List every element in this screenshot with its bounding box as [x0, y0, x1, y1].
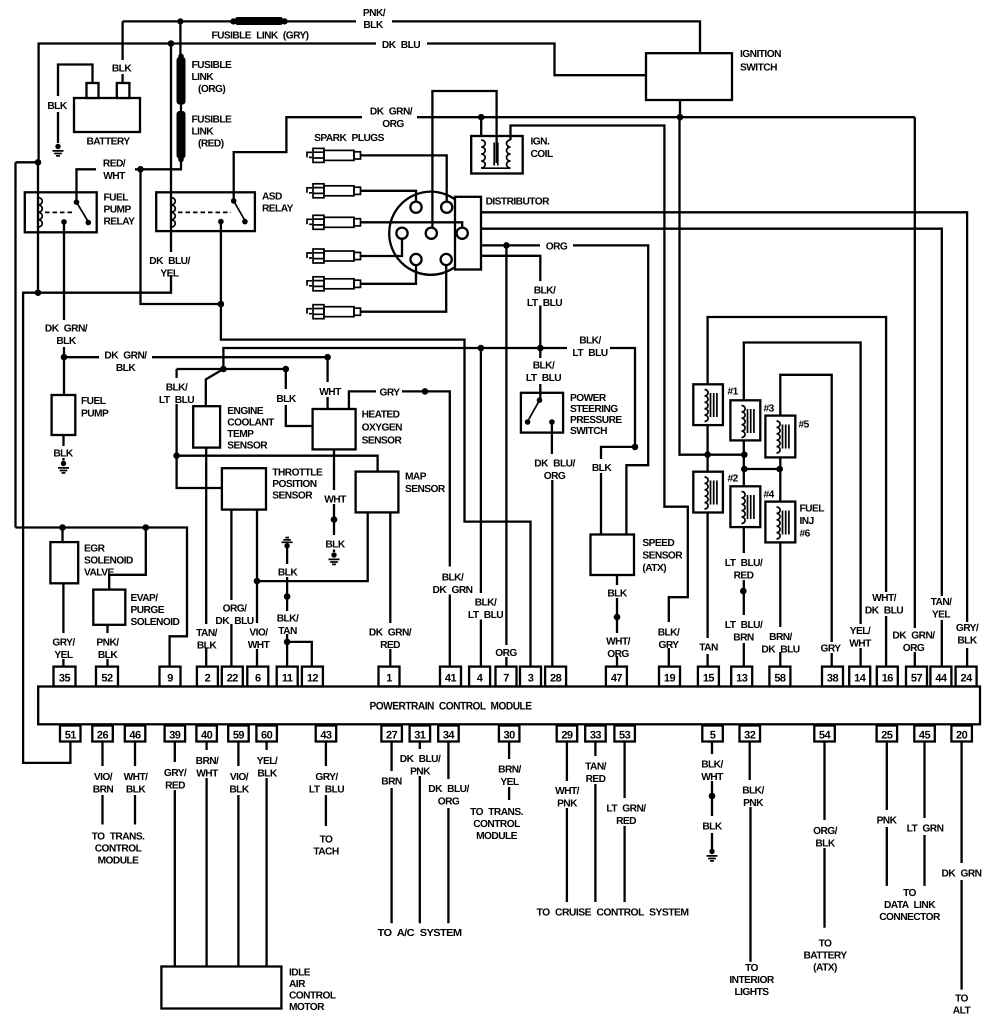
wire: plug 4 to distributor — [361, 239, 403, 256]
svg-text:#4: #4 — [764, 490, 775, 501]
svg-text:ORG: ORG — [544, 471, 566, 482]
wire GRY/RED: pin 39 to idle air control motor — [174, 742, 176, 967]
wire ORG/BLK: pin 54 to battery (ATX) — [823, 742, 825, 928]
svg-text:BLK: BLK — [325, 540, 345, 551]
powertrain control module box — [38, 687, 980, 725]
fuel pump relay box — [25, 192, 97, 232]
svg-text:TO: TO — [320, 835, 333, 846]
wire PNK/BLK: EVAP to pin 52 — [106, 625, 108, 667]
spark plug 4 — [307, 249, 361, 263]
node: splice on GRY wire — [422, 388, 429, 395]
svg-text:DK BLU/: DK BLU/ — [149, 256, 190, 267]
svg-text:VIO/: VIO/ — [230, 772, 249, 783]
pin 25 — [877, 726, 898, 742]
svg-text:BLK/: BLK/ — [534, 286, 556, 297]
ignition coil right winding — [507, 140, 511, 168]
pin 15 — [698, 667, 719, 687]
svg-text:SENSOR: SENSOR — [227, 441, 268, 452]
pin 45 — [914, 726, 935, 742]
node: ignition switch output junction — [677, 114, 684, 121]
wire: sensor ground lateral — [177, 368, 288, 370]
svg-text:DATA LINK: DATA LINK — [884, 900, 936, 911]
ground: pin 5 — [707, 849, 718, 861]
wire DK GRN/RED: MAP signal to pin 1 — [389, 512, 391, 666]
wire: top battery feed to fusible link (GRY) — [123, 20, 234, 22]
svg-text:GRY: GRY — [379, 388, 400, 399]
svg-text:SENSOR: SENSOR — [272, 491, 313, 502]
svg-text:WHT/: WHT/ — [124, 772, 149, 783]
wire: coil tower to distributor center — [432, 91, 496, 228]
wire: injector column A (Nos.1-2) riser and drop to pin 15 — [708, 317, 887, 667]
svg-text:FUSIBLE LINK (GRY): FUSIBLE LINK (GRY) — [212, 31, 309, 42]
PS switch contacts — [525, 397, 555, 424]
wire: distributor sync signal to PCM pin 44 — [481, 229, 942, 667]
wire: plug 6 to distributor — [361, 265, 447, 312]
svg-text:RELAY: RELAY — [262, 204, 294, 215]
pin 2 — [197, 667, 218, 687]
svg-text:WHT: WHT — [849, 639, 872, 650]
svg-text:CONNECTOR: CONNECTOR — [879, 912, 941, 923]
pin 5 — [702, 726, 723, 742]
svg-text:BLK/: BLK/ — [533, 361, 555, 372]
svg-text:#6: #6 — [800, 529, 811, 540]
svg-text:51: 51 — [65, 730, 77, 742]
svg-text:PNK/: PNK/ — [363, 8, 386, 19]
pin 6 — [247, 667, 268, 687]
node: relay coil bottom junction — [35, 289, 42, 296]
pin 11 — [277, 667, 298, 687]
svg-text:DK BLU: DK BLU — [761, 645, 799, 656]
svg-text:(ATX): (ATX) — [813, 963, 837, 974]
svg-text:35: 35 — [59, 673, 71, 685]
svg-text:TO: TO — [745, 963, 758, 974]
ASD relay box — [156, 192, 255, 231]
pin 3 — [520, 667, 541, 687]
node: top of fusible link ORG — [178, 54, 184, 60]
wire LT GRN: pin 45 to data link connector — [923, 742, 925, 886]
wire: ORG branch down to PCM pin 7 — [505, 245, 507, 666]
fusible link RED bar — [177, 111, 186, 159]
svg-text:46: 46 — [129, 730, 141, 742]
svg-text:LT BLU: LT BLU — [159, 395, 194, 406]
svg-text:BRN/: BRN/ — [498, 765, 521, 776]
svg-text:MODULE: MODULE — [476, 831, 518, 842]
svg-text:PNK: PNK — [410, 767, 431, 778]
wire BLK/PNK: pin 32 to interior lights — [749, 742, 752, 962]
svg-text:BLK: BLK — [197, 641, 217, 652]
fuel pump relay contact and arm — [74, 199, 80, 205]
ignition coil bottom bar — [481, 167, 510, 169]
svg-text:SPARK PLUGS: SPARK PLUGS — [314, 133, 385, 144]
node: injector column B lower feed — [741, 466, 748, 473]
wire DK BLU/ORG: PS switch to pin 28 — [551, 422, 554, 667]
svg-text:53: 53 — [619, 730, 631, 742]
node: splice on speed sensor output — [614, 614, 621, 621]
wire: TPS ground to sensor return bus — [256, 510, 258, 581]
svg-text:TAN: TAN — [278, 626, 297, 637]
node: splice on HO2S ground — [331, 516, 338, 523]
wire DK GRN/ORG rail — [417, 116, 915, 118]
pin 9 — [160, 667, 181, 687]
node: DK BLU / relay coil top junction — [35, 159, 42, 166]
svg-text:RED/: RED/ — [103, 159, 126, 170]
svg-text:VIO/: VIO/ — [249, 628, 268, 639]
svg-text:DK BLU: DK BLU — [215, 616, 253, 627]
svg-text:HEATED: HEATED — [362, 410, 400, 421]
svg-text:LT BLU: LT BLU — [526, 373, 561, 384]
svg-text:FUEL: FUEL — [81, 396, 106, 407]
wire BLK: HO2S signal-ground drop — [286, 369, 313, 426]
svg-text:BRN/: BRN/ — [769, 632, 792, 643]
wire: ECT bottom lead to pin 2 (TAN/BLK) — [205, 448, 207, 667]
pin 57 — [906, 667, 927, 687]
svg-text:1: 1 — [386, 673, 392, 685]
wire: ASD common down — [220, 222, 222, 304]
wire BLK/LT BLU: distributor to sensor-ground rail — [481, 256, 540, 348]
svg-text:13: 13 — [736, 673, 748, 685]
svg-text:SENSOR: SENSOR — [642, 551, 683, 562]
wire WHT/BLK: HO2S ground chain — [333, 449, 335, 552]
svg-text:BATTERY: BATTERY — [803, 951, 847, 962]
svg-text:DK GRN/: DK GRN/ — [45, 324, 88, 335]
svg-text:YEL: YEL — [500, 777, 518, 788]
wire: injector column B (Nos.3-4) riser and drop to pin 14 — [744, 343, 861, 667]
distributor tower bottom-left — [410, 254, 421, 265]
svg-text:DK GRN/: DK GRN/ — [370, 107, 413, 118]
idle air control motor box — [161, 967, 281, 1009]
wire WHT/BLK: pin 46 to trans control module — [134, 742, 136, 825]
svg-text:ORG/: ORG/ — [223, 604, 248, 615]
node: EVAP solenoid feed junction — [143, 524, 150, 531]
svg-text:DK BLU: DK BLU — [865, 606, 903, 617]
svg-text:ORG: ORG — [903, 643, 925, 654]
svg-text:YEL: YEL — [932, 610, 950, 621]
wire VIO/BLK: pin 59 to idle air control motor — [237, 742, 239, 967]
pin 43 — [316, 726, 337, 742]
pin 28 — [545, 667, 566, 687]
svg-text:FUEL: FUEL — [800, 504, 825, 515]
svg-text:TO: TO — [955, 994, 968, 1005]
wire BLK/WHT: pin 5 to ground — [711, 742, 713, 850]
svg-text:CONTROL: CONTROL — [95, 844, 142, 855]
svg-text:GRY/: GRY/ — [315, 772, 338, 783]
distributor tower mid-right — [457, 228, 468, 239]
svg-text:BRN/: BRN/ — [196, 756, 219, 767]
svg-text:22: 22 — [227, 673, 239, 685]
svg-text:BLK: BLK — [257, 769, 277, 780]
svg-text:20: 20 — [956, 730, 968, 742]
svg-text:BLK/: BLK/ — [701, 760, 723, 771]
svg-text:THROTTLE: THROTTLE — [272, 468, 323, 479]
pin 52 — [96, 667, 118, 687]
svg-text:BLK/: BLK/ — [442, 573, 464, 584]
node: DK BLU / ASD coil junction — [168, 40, 175, 47]
wire BLK / WHT-ORG: speed sensor output to pin 47 — [616, 575, 618, 667]
svg-text:DISTRIBUTOR: DISTRIBUTOR — [486, 197, 551, 208]
wire: far-left riser down to EGR feed — [14, 162, 16, 527]
svg-text:BRN: BRN — [733, 633, 754, 644]
distributor connector block — [455, 197, 481, 270]
fuel injector 3 — [730, 400, 760, 440]
svg-text:EVAP/: EVAP/ — [131, 593, 159, 604]
svg-text:GRY: GRY — [658, 640, 679, 651]
svg-text:DK BLU: DK BLU — [382, 40, 420, 51]
svg-text:RED: RED — [165, 781, 185, 792]
svg-text:BLK/: BLK/ — [742, 786, 764, 797]
svg-text:IDLE: IDLE — [289, 968, 311, 979]
svg-text:FUEL: FUEL — [104, 193, 129, 204]
svg-text:(RED): (RED) — [198, 139, 224, 150]
wire BLK/LT BLU drop to TPS — [177, 369, 222, 488]
svg-text:5: 5 — [710, 730, 716, 742]
svg-text:#1: #1 — [728, 387, 739, 398]
wire: link ORG to link RED — [180, 105, 182, 112]
svg-text:PUMP: PUMP — [81, 409, 109, 420]
wire: plug 1 to distributor — [361, 155, 447, 201]
distributor tower top-right — [441, 202, 452, 213]
wire: branch to pin 12 — [287, 642, 312, 667]
node: ASD common junction — [218, 301, 225, 308]
svg-text:LT BLU: LT BLU — [309, 785, 344, 796]
svg-text:AIR: AIR — [289, 979, 306, 990]
svg-text:FUSIBLE: FUSIBLE — [192, 115, 232, 126]
svg-text:BLK: BLK — [229, 785, 249, 796]
svg-text:TAN/: TAN/ — [196, 628, 218, 639]
wire: injector feed B to C — [744, 468, 779, 470]
EVAP purge solenoid box — [93, 590, 125, 625]
fuel pump relay dashed link — [45, 211, 74, 213]
svg-text:6: 6 — [255, 673, 261, 685]
wire: sensor return bus to MAP — [257, 512, 368, 581]
svg-text:BRN: BRN — [93, 785, 114, 796]
wire PNK: pin 25 to data link connector — [886, 742, 888, 886]
pin 31 — [410, 726, 431, 742]
fusible link GRY bar — [235, 17, 283, 25]
EGR solenoid valve box — [50, 542, 78, 583]
svg-text:GRY/: GRY/ — [164, 768, 187, 779]
svg-text:52: 52 — [101, 673, 113, 685]
svg-text:CONTROL: CONTROL — [473, 819, 520, 830]
pin 40 — [196, 726, 217, 742]
fuel injector 4 — [730, 486, 760, 527]
svg-text:3: 3 — [528, 673, 534, 685]
svg-text:15: 15 — [703, 673, 715, 685]
node: fusible link GRY right terminal — [282, 18, 288, 24]
wire BRN/WHT: pin 40 to idle air control motor — [205, 742, 207, 967]
svg-text:MOTOR: MOTOR — [289, 1002, 325, 1013]
node: injector column A feed — [704, 451, 711, 458]
svg-text:WHT/: WHT/ — [555, 786, 580, 797]
svg-text:RED: RED — [586, 774, 606, 785]
svg-text:DK GRN: DK GRN — [942, 869, 982, 880]
svg-text:DK GRN/: DK GRN/ — [892, 631, 935, 642]
wire BLK: ground chain down — [286, 546, 288, 667]
pin 29 — [557, 726, 578, 742]
fuel injector 6 — [765, 502, 795, 543]
node: ECT branch junction — [220, 366, 227, 373]
svg-text:TAN: TAN — [699, 643, 718, 654]
wire: coil negative to PCM pin 19 (BLK/GRY) — [511, 126, 688, 667]
wire TAN/RED: pin 33 to cruise control — [594, 742, 596, 903]
wire: fuel pump drop — [63, 357, 65, 395]
svg-text:32: 32 — [744, 730, 756, 742]
wire PNK/BLK: link to ignition switch — [285, 21, 700, 53]
svg-text:BLK: BLK — [702, 822, 722, 833]
svg-text:BLK: BLK — [278, 568, 298, 579]
pin 32 — [740, 726, 761, 742]
svg-text:ORG: ORG — [438, 797, 460, 808]
svg-text:YEL: YEL — [160, 269, 178, 280]
svg-text:29: 29 — [561, 730, 573, 742]
pin 14 — [849, 667, 870, 687]
svg-text:BLK: BLK — [126, 785, 146, 796]
wire VIO/WHT: return bus to pin 6 — [256, 581, 258, 667]
svg-text:BLK/: BLK/ — [166, 383, 188, 394]
distributor tower center — [426, 228, 437, 239]
svg-text:14: 14 — [854, 673, 867, 685]
svg-text:BLK: BLK — [957, 636, 977, 647]
svg-text:POWER: POWER — [570, 393, 607, 404]
svg-text:ORG: ORG — [495, 648, 517, 659]
svg-text:TO TRANS.: TO TRANS. — [470, 807, 523, 818]
wire: plug 2 to distributor — [361, 191, 417, 202]
ground: battery — [53, 144, 64, 156]
svg-text:BLK: BLK — [112, 64, 132, 75]
node: EGR solenoid feed junction — [59, 524, 66, 531]
svg-text:39: 39 — [169, 730, 181, 742]
svg-text:38: 38 — [827, 673, 839, 685]
svg-text:EGR: EGR — [84, 544, 106, 555]
svg-text:YEL: YEL — [54, 650, 72, 661]
fusible link ORG bar — [177, 57, 186, 105]
svg-text:LT BLU/: LT BLU/ — [725, 620, 763, 631]
node: splice on pin 5 ground wire — [709, 793, 716, 800]
svg-text:LIGHTS: LIGHTS — [734, 987, 769, 998]
svg-text:SENSOR: SENSOR — [362, 436, 403, 447]
wire: MAP sensor feed lateral — [177, 456, 378, 472]
MAP sensor box — [356, 472, 399, 513]
wire BLK/LT BLU sensor ground rail — [223, 348, 635, 447]
wire WHT/PNK: pin 29 to cruise control — [566, 742, 568, 903]
wire GRY/YEL: EGR to pin 35 — [62, 583, 64, 666]
wire ORG: distributor to speed sensor and pin 7 — [481, 245, 648, 534]
svg-text:BLK: BLK — [815, 839, 835, 850]
svg-text:BLK: BLK — [47, 101, 67, 112]
pin 35 — [54, 667, 76, 687]
svg-text:28: 28 — [550, 673, 562, 685]
svg-text:BLK: BLK — [363, 20, 383, 31]
svg-text:45: 45 — [919, 730, 931, 742]
svg-text:TO A/C SYSTEM: TO A/C SYSTEM — [378, 928, 462, 939]
svg-text:WHT: WHT — [196, 769, 219, 780]
pin 7 — [496, 667, 517, 687]
svg-text:MODULE: MODULE — [98, 856, 140, 867]
node: power steering switch branch junction — [537, 345, 544, 352]
distributor tower bottom-right — [441, 254, 452, 265]
node: speed sensor ground junction — [632, 444, 639, 451]
svg-text:11: 11 — [282, 673, 293, 685]
svg-text:LT GRN/: LT GRN/ — [606, 804, 646, 815]
pin 39 — [165, 726, 186, 742]
svg-text:34: 34 — [443, 730, 456, 742]
wire: EVAP feed jog — [109, 528, 146, 590]
svg-text:25: 25 — [881, 730, 893, 742]
wire LT GRN/RED: pin 53 to cruise control — [623, 742, 625, 903]
pin 41 — [440, 667, 461, 687]
wire: ignition switch output down to DK GRN/ORG rail — [679, 100, 681, 117]
svg-text:54: 54 — [819, 730, 832, 742]
fuel injector 1 — [693, 384, 723, 425]
svg-text:31: 31 — [414, 730, 426, 742]
node: ignition coil feed junction — [478, 114, 485, 121]
svg-text:TACH: TACH — [313, 847, 339, 858]
wire WHT: oxygen sensor heater feed — [326, 357, 328, 409]
pin 46 — [125, 726, 146, 742]
svg-text:57: 57 — [911, 673, 923, 685]
svg-text:(ORG): (ORG) — [198, 84, 225, 95]
fuel pump box — [52, 395, 76, 435]
pin 1 — [379, 667, 400, 687]
wire GRY: HO2S signal to pin 41 — [349, 391, 450, 666]
svg-text:BLK: BLK — [276, 394, 296, 405]
pin 38 — [822, 667, 843, 687]
svg-text:BLK: BLK — [53, 449, 73, 460]
svg-text:9: 9 — [167, 673, 173, 685]
svg-text:TO CRUISE CONTROL SYSTEM: TO CRUISE CONTROL SYSTEM — [537, 908, 689, 919]
ignition switch box — [646, 53, 732, 100]
wire BLK: battery negative to ground — [58, 65, 93, 144]
svg-text:WHT/: WHT/ — [872, 593, 897, 604]
pin 19 — [659, 667, 680, 687]
wire DK BLU/ORG: pin 34 to A/C system — [447, 742, 449, 924]
spark plug 2 — [307, 184, 361, 198]
svg-text:YEL/: YEL/ — [850, 626, 871, 637]
svg-text:BLK/: BLK/ — [579, 336, 601, 347]
wire: junction down to fusible link ORG — [179, 21, 181, 56]
svg-text:BLK: BLK — [56, 336, 76, 347]
svg-text:SOLENOID: SOLENOID — [84, 556, 133, 567]
pin 51 — [60, 726, 81, 742]
wire BLK: battery positive riser — [121, 21, 123, 83]
wire DK BLU/PNK: pin 31 to A/C system — [419, 742, 421, 924]
spark plug 1 — [307, 148, 361, 162]
inverted ground: splice ground for pins 11/12 — [282, 538, 293, 549]
svg-text:PURGE: PURGE — [131, 605, 165, 616]
svg-text:TO TRANS.: TO TRANS. — [92, 832, 145, 843]
svg-text:LINK: LINK — [192, 72, 215, 83]
ECT sensor box — [193, 406, 220, 447]
ASD relay contact and arm — [231, 198, 237, 204]
wire: DK GRN/ORG sense drop to pin 57 — [914, 117, 916, 666]
svg-text:DK GRN: DK GRN — [433, 585, 473, 596]
svg-text:FUSIBLE: FUSIBLE — [192, 60, 232, 71]
ignition coil left winding — [481, 140, 485, 168]
svg-text:SOLENOID: SOLENOID — [131, 617, 180, 628]
wire: RED/WHT branch to ASD relay common — [141, 169, 221, 304]
wire: ASD switched output to PCM pin 3 — [221, 304, 531, 667]
pin 53 — [614, 726, 635, 742]
wire: ASD contact up to DK GRN/ORG rail — [234, 117, 362, 201]
svg-text:47: 47 — [611, 673, 623, 685]
node: injector column C feed — [776, 466, 783, 473]
svg-text:ORG/: ORG/ — [813, 826, 838, 837]
battery terminal left — [87, 83, 99, 98]
node: RED/WHT junction — [137, 166, 144, 173]
svg-text:BATTERY: BATTERY — [86, 137, 130, 148]
node: HO2S ground branch junction — [283, 366, 290, 373]
fuel pump relay coil — [38, 198, 42, 228]
svg-text:60: 60 — [261, 730, 273, 742]
